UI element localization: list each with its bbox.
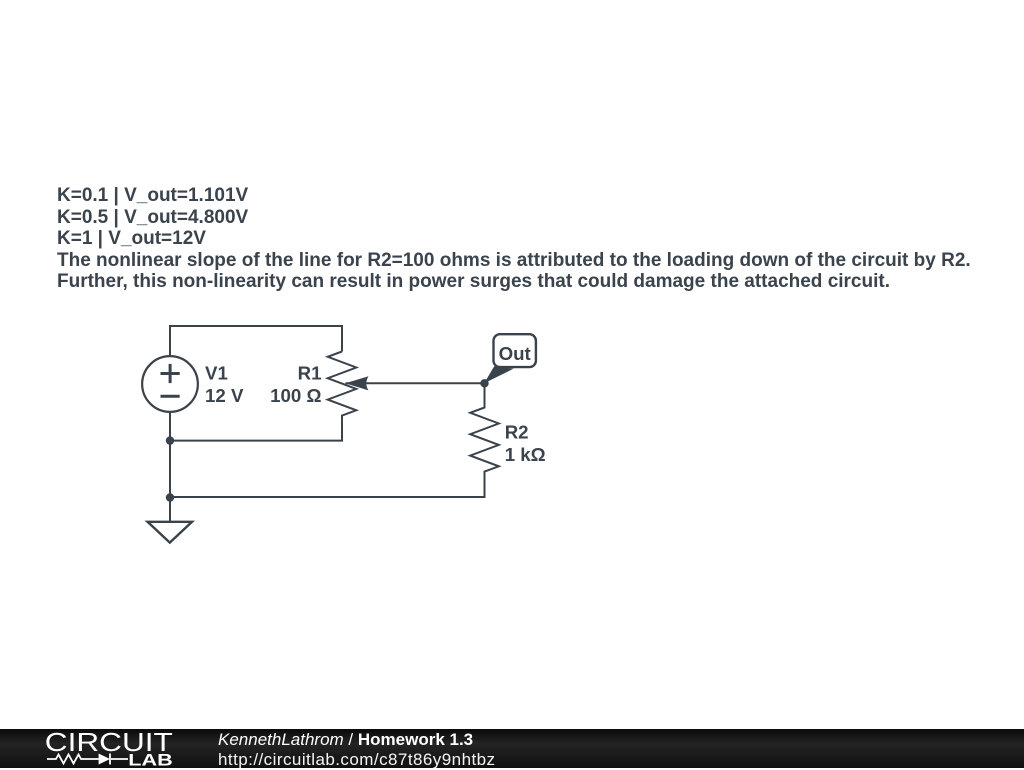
svg-text:12 V: 12 V xyxy=(205,385,244,406)
svg-text:R2: R2 xyxy=(505,422,529,443)
svg-text:R1: R1 xyxy=(298,363,322,384)
svg-text:LAB: LAB xyxy=(128,750,173,768)
svg-text:V1: V1 xyxy=(205,363,228,384)
svg-text:Out: Out xyxy=(499,343,531,364)
svg-text:1 kΩ: 1 kΩ xyxy=(505,444,546,465)
svg-text:100 Ω: 100 Ω xyxy=(270,385,321,406)
